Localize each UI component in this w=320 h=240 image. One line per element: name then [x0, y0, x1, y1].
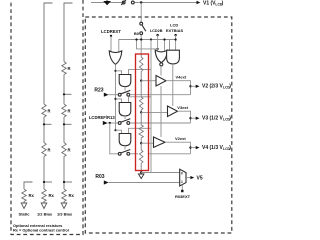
node ladder bottom	[140, 171, 142, 173]
svg-text:B0: B0	[134, 31, 140, 36]
svg-text:Rx: Rx	[29, 193, 35, 198]
wire LCD2B down	[157, 35, 159, 52]
mux V5	[180, 169, 186, 186]
wire gateC right input from rail	[164, 40, 166, 53]
wire: buffer1 bottom to buffer3 top	[160, 86, 162, 137]
svg-text:1/3 Bias: 1/3 Bias	[57, 211, 73, 216]
svg-text:R03: R03	[95, 174, 104, 180]
wire: B0 to rail	[140, 35, 142, 54]
wire: long vertical x151	[150, 40, 152, 173]
svg-text:Rx: Rx	[69, 193, 75, 198]
wire: chain2 vertical with top corner	[44, 3, 53, 104]
buffer V3ext	[168, 106, 178, 117]
svg-text:V1 (V: V1 (V	[203, 1, 216, 7]
node: chain3 tap mid	[64, 123, 72, 125]
node: rail to long vertical	[150, 38, 152, 40]
wire: chain1 vertical with corner	[24, 182, 33, 189]
wire AND2 left input	[116, 99, 122, 103]
pin arrow V2	[191, 85, 196, 87]
signal arrow LCDREF/R13	[103, 121, 108, 125]
or-gate C (drives V4ext/V2ext buffers)	[155, 50, 167, 63]
node: chain2 tap mid	[44, 123, 52, 125]
svg-text:Static: Static	[19, 211, 31, 216]
node: chain2 bottom tap	[44, 181, 52, 183]
and-gate AND3	[119, 134, 131, 146]
resistor R chain2 lower	[42, 143, 46, 157]
svg-text:LCD2B: LCD2B	[150, 29, 163, 33]
node under LCD2B	[156, 34, 158, 36]
wire: OR1 output vertical	[115, 65, 117, 131]
wire LCDREF branch down to switch3	[110, 123, 119, 154]
chip dashed box	[85, 17, 232, 233]
wire buffer1 output	[166, 81, 191, 95]
node OR1 out to AND1	[114, 70, 116, 72]
wire AND3 right input	[129, 128, 152, 133]
resistor ladder R4	[139, 143, 143, 172]
svg-text:V4ext: V4ext	[176, 75, 187, 80]
node V3	[189, 117, 191, 119]
svg-text:0: 0	[181, 171, 183, 175]
node: chain3 tap after R1	[64, 93, 72, 95]
wire: gateC bubble to buffer1 top	[160, 66, 162, 76]
or-gate D (drives V3ext buffer)	[167, 50, 180, 64]
wire AND2 right input	[129, 97, 152, 103]
svg-text:V5: V5	[197, 176, 203, 182]
wire: LCDREXT to OR1 input	[110, 36, 112, 54]
node under LCDREXT	[110, 35, 112, 37]
wire buffer2 output	[178, 111, 191, 123]
pin arrow V3	[191, 117, 196, 119]
switch B0	[140, 22, 143, 25]
svg-text:Rx = Optional contrast control: Rx = Optional contrast control	[13, 228, 69, 233]
ground arrow chain1	[23, 202, 25, 204]
resistor Rx chain1	[22, 189, 26, 202]
resistor R chain2 mid	[42, 104, 46, 117]
arrow down onto V1 rail	[106, 0, 108, 2]
pin arrow V1	[197, 1, 201, 4]
wire gateD left input	[169, 40, 171, 51]
svg-text:LCDREF/R13: LCDREF/R13	[89, 115, 115, 120]
wire AND3 out to switch3	[124, 146, 126, 150]
wire AND1 out to switch1	[124, 87, 126, 91]
red highlight box around internal divider	[136, 54, 149, 171]
wire tap2 to buffer2	[141, 111, 167, 113]
node on rail at EXTBIAS	[175, 38, 177, 40]
pin arrow V4	[191, 147, 196, 149]
wire tap1 to buffer1	[141, 80, 156, 82]
left optional-resistors dashed box	[11, 0, 83, 235]
node: rail-B0 junction	[140, 38, 142, 40]
ground arrow chain3	[63, 202, 65, 204]
ground arrow under ladder	[140, 173, 142, 175]
node: chain3 bottom tap	[64, 181, 72, 183]
pin arrow V5	[186, 177, 190, 179]
svg-text:LCD: LCD	[170, 23, 178, 28]
svg-text:V4 (1/3 V: V4 (1/3 V	[202, 145, 224, 151]
wire switch1 to V2 node (feedback row1)	[130, 94, 191, 96]
switch3	[118, 152, 121, 155]
svg-text:R: R	[68, 109, 71, 114]
switch2	[118, 122, 121, 125]
svg-text:R: R	[68, 148, 71, 153]
wire EXTBIAS down	[175, 35, 177, 50]
ground arrow chain2	[43, 202, 45, 204]
wire buffer3 output	[165, 142, 191, 154]
wire AND3 left input	[116, 130, 122, 133]
svg-text:Rx: Rx	[49, 193, 55, 198]
resistor R chain3 lower	[62, 143, 66, 157]
and-gate AND2	[119, 103, 131, 116]
svg-text:V3ext: V3ext	[177, 105, 188, 110]
wire AND1 left input	[116, 71, 122, 75]
switch on V1 rail	[122, 1, 125, 4]
node V4	[189, 146, 191, 148]
switch1	[118, 93, 121, 96]
wire AND2 out to switch2	[124, 116, 126, 120]
wire R23 to switch1	[109, 94, 119, 96]
resistor ladder R top	[139, 54, 143, 81]
node OR1 out to AND2	[114, 98, 116, 100]
wire tap3 to buffer3	[141, 142, 153, 144]
wire: V1 top rail	[91, 2, 122, 4]
buffer V2ext	[154, 137, 166, 147]
node LCDREF branch	[109, 122, 111, 124]
svg-text:V2ext: V2ext	[175, 136, 186, 141]
wire: V1 down to B0 switch	[140, 3, 142, 22]
svg-text:R03EXT: R03EXT	[175, 194, 191, 199]
svg-text:LCDREXT: LCDREXT	[101, 29, 121, 34]
wire: rail drop to gateC row	[137, 40, 158, 49]
wire LCDREF to switch2	[108, 122, 119, 124]
svg-text:R: R	[48, 109, 51, 114]
wire switch3 to V4 node (feedback row3)	[130, 153, 138, 155]
bubble on gate C output	[160, 63, 163, 66]
wire switch2 to V3 node (feedback row2)	[130, 122, 191, 124]
or-gate OR1 (LCDREXT)	[109, 51, 122, 64]
signal arrow R03	[104, 180, 109, 184]
resistor R chain3 upper	[62, 62, 66, 75]
resistor R chain3 mid	[62, 104, 66, 117]
svg-text:V2 (2/3 V: V2 (2/3 V	[202, 84, 224, 90]
node V2	[189, 85, 191, 87]
node: V1 junction	[140, 1, 142, 3]
wire: chain3 vertical with top corner	[64, 3, 73, 62]
mux select R03EXT	[181, 185, 183, 190]
svg-text:R: R	[68, 66, 71, 71]
and-gate AND1	[119, 75, 131, 87]
buffer V4ext	[156, 76, 166, 87]
svg-text:1: 1	[181, 180, 183, 184]
svg-text:R: R	[48, 148, 51, 153]
signal arrow R23	[104, 93, 109, 97]
svg-text:1/2 Bias: 1/2 Bias	[37, 211, 53, 216]
svg-text:R23: R23	[94, 87, 103, 93]
svg-text:EXTBIAS: EXTBIAS	[166, 28, 184, 33]
wire: rail y39.5	[119, 40, 176, 54]
wire ladder bottom to mux input 0	[141, 172, 180, 174]
svg-text:V3 (1/2 V: V3 (1/2 V	[202, 116, 224, 122]
resistor ladder R3	[139, 112, 143, 142]
node tap2	[140, 111, 142, 113]
wire AND1 right input	[129, 70, 152, 75]
resistor Rx chain2	[42, 189, 46, 202]
resistor ladder R2	[139, 81, 143, 113]
wire: gateD to buffer2 top	[172, 64, 174, 106]
node under EXTBIAS	[174, 34, 176, 36]
wire R03 to mux input 1	[109, 182, 180, 184]
node tap3	[140, 142, 142, 144]
node OR1 out to AND3	[114, 129, 116, 131]
node tap1	[140, 80, 142, 82]
resistor Rx chain3	[62, 189, 66, 202]
